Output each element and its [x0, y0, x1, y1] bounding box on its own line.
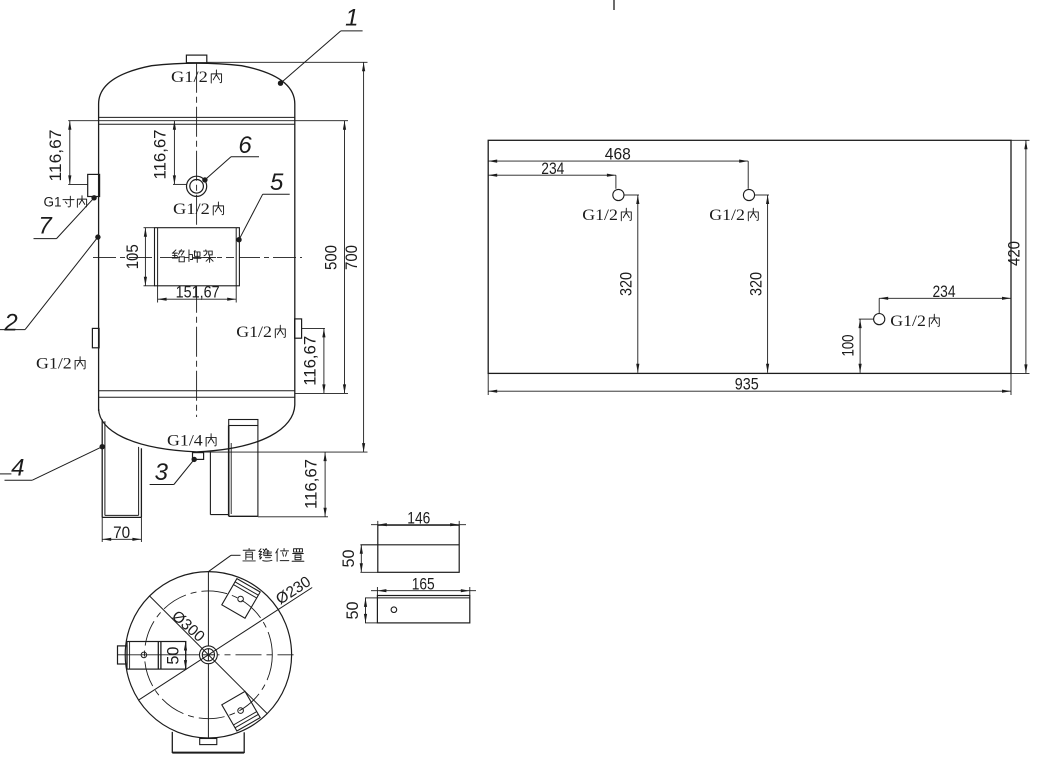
top view horizontal centerline [194, 654, 294, 656]
upper right leg top view [222, 579, 260, 619]
svg-text:100: 100 [839, 335, 857, 357]
dim 700 [362, 62, 365, 452]
svg-text:G1/4: G1/4 [167, 432, 203, 449]
vessel top head [99, 63, 295, 104]
dim 116.67 upper right [302, 328, 326, 393]
svg-text:116,67: 116,67 [302, 336, 320, 386]
plate 165 hole [391, 607, 397, 613]
svg-text:G1/2: G1/2 [36, 355, 72, 372]
dim 320 B [755, 195, 770, 373]
dev label C [890, 313, 939, 330]
label G1/2 right [236, 324, 285, 341]
dim 234 right [879, 297, 1011, 314]
dim 70 [102, 517, 141, 542]
extension line bottom apex [196, 451, 368, 453]
callout 5 leader [236, 194, 289, 242]
svg-text:116,67: 116,67 [47, 130, 65, 182]
extension line top apex [207, 61, 368, 63]
dim 165 text [412, 575, 435, 593]
callout 5 text [270, 169, 284, 196]
dim 234 left text [541, 160, 564, 178]
svg-text:50: 50 [164, 647, 182, 665]
svg-text:320: 320 [747, 272, 765, 296]
dim 935 [488, 373, 1011, 395]
D300 text [168, 608, 208, 646]
vessel shell left wall [98, 104, 100, 411]
callout 2 leader [0, 234, 101, 329]
top view bolt circle [145, 591, 273, 719]
dim 165 [371, 587, 476, 596]
left leg bolt hole [141, 652, 147, 658]
vessel vertical centerline [196, 63, 198, 417]
right leg [229, 420, 258, 517]
svg-text:G1/2: G1/2 [890, 313, 926, 330]
callout 1 text [345, 5, 358, 32]
svg-text:151,67: 151,67 [176, 283, 220, 301]
dim 146 text [407, 509, 430, 527]
top view outer circle [125, 572, 291, 738]
dev label A [582, 207, 631, 224]
seam label leader [209, 555, 241, 571]
top partial line [613, 0, 615, 10]
dim 116.67 lower right text [302, 459, 320, 509]
dim 100 text [839, 335, 857, 357]
svg-text:G1/2: G1/2 [173, 201, 210, 218]
svg-text:234: 234 [933, 283, 956, 301]
svg-text:700: 700 [343, 245, 361, 270]
dim 116.67 middle text [151, 130, 169, 180]
dim 50 plate2 [364, 598, 367, 623]
D230 text [273, 573, 314, 608]
nameplate text [172, 250, 215, 263]
svg-text:935: 935 [735, 376, 759, 394]
dim 500 [343, 121, 346, 394]
label G1cun [43, 195, 86, 210]
lower right leg top view [222, 691, 260, 731]
callout 3 leader [150, 457, 197, 485]
dim 50 plate2 text [344, 602, 362, 620]
label G1/2 left [36, 355, 85, 372]
svg-text:G1/2: G1/2 [236, 324, 272, 341]
base plate notch [200, 739, 217, 745]
svg-text:146: 146 [407, 509, 430, 527]
top nozzle [186, 55, 206, 63]
svg-text:105: 105 [124, 244, 142, 269]
extension line top weld [68, 120, 348, 122]
nozzle 7 rect [88, 174, 100, 196]
label G1/2 middle [173, 201, 224, 218]
dim 50 plate1 text [340, 550, 358, 568]
left G1/2 nozzle [92, 328, 99, 347]
label G1/2 top [171, 69, 222, 86]
svg-text:G1/2: G1/2 [709, 207, 745, 224]
dev nozzle B circle [743, 189, 754, 200]
dim 320 A [624, 195, 639, 373]
dim 50 plate1 [360, 545, 363, 573]
D300 diameter line [150, 596, 268, 714]
dim 151.67 [158, 286, 237, 303]
svg-text:116,67: 116,67 [151, 130, 169, 180]
svg-text:320: 320 [618, 272, 636, 296]
seam label text [243, 548, 304, 561]
vessel shell right wall [294, 104, 296, 405]
svg-text:Ø300: Ø300 [168, 608, 208, 646]
svg-text:G1: G1 [43, 195, 61, 210]
label G1/4 [167, 432, 216, 449]
nameplate rect [155, 228, 240, 286]
dim 116.67 lower right [258, 452, 328, 517]
svg-text:116,67: 116,67 [302, 459, 320, 509]
base plate [172, 732, 244, 753]
dim 420 [1011, 140, 1030, 373]
svg-text:2: 2 [3, 310, 17, 337]
dim 500 text [323, 245, 341, 270]
top weld seam line [99, 123, 295, 125]
dim 468 [488, 160, 748, 189]
svg-text:50: 50 [344, 602, 362, 620]
dim 105 text [124, 244, 142, 269]
dim 700 text [343, 245, 361, 270]
plate 146 rect [360, 525, 459, 572]
svg-text:234: 234 [541, 160, 564, 178]
svg-text:G1/2: G1/2 [582, 207, 618, 224]
vessel bottom head [99, 405, 295, 452]
svg-text:6: 6 [238, 132, 252, 159]
dim 151.67 text [176, 283, 220, 301]
left leg centerline [117, 654, 194, 656]
dev label B [709, 207, 758, 224]
dim 70 text [113, 524, 130, 542]
svg-text:420: 420 [1006, 241, 1024, 266]
back leg edge [210, 452, 228, 515]
svg-text:3: 3 [155, 459, 169, 486]
dim 116.67 left [68, 121, 88, 185]
dim 935 text [735, 376, 759, 394]
bottom head tangent line [99, 396, 295, 398]
dim 116.67 left text [47, 130, 65, 182]
svg-text:7: 7 [38, 212, 53, 239]
vessel horizontal centerline [93, 256, 302, 258]
dim 100 [859, 319, 874, 373]
svg-text:1: 1 [345, 5, 358, 32]
svg-text:Ø230: Ø230 [273, 573, 314, 608]
left leg [102, 420, 141, 518]
dim 234 right text [933, 283, 956, 301]
callout 2 text [3, 310, 17, 337]
dim 116.67 middle [173, 121, 187, 185]
dev nozzle A circle [613, 189, 624, 200]
callout 7 text [38, 212, 53, 239]
dim 420 text [1006, 241, 1024, 266]
center symbol [200, 646, 218, 664]
svg-text:4: 4 [11, 455, 24, 482]
callout 4 leader [5, 444, 105, 480]
callout 6 text [238, 132, 252, 159]
dim 50 top view [184, 642, 187, 670]
extension line bottom weld [295, 392, 348, 394]
dim 320 A text [618, 272, 636, 296]
dev nozzle C circle [874, 314, 885, 325]
nameplate centerline [160, 256, 234, 258]
top view vertical seam line [207, 572, 209, 738]
bottom nozzle [193, 453, 204, 460]
dim 468 text [605, 146, 631, 164]
svg-text:50: 50 [340, 550, 358, 568]
top head tangent line [99, 116, 295, 118]
svg-text:165: 165 [412, 575, 435, 593]
svg-text:468: 468 [605, 146, 631, 164]
nozzle 6 circle [187, 176, 207, 196]
callout 3 text [155, 459, 169, 486]
dim 116.67 upper right text [302, 336, 320, 386]
dim 320 B text [747, 272, 765, 296]
svg-text:500: 500 [323, 245, 341, 270]
callout 1 leader [278, 31, 363, 86]
plate 165 rect [365, 596, 470, 623]
right G1/2 nozzle [295, 319, 302, 338]
bottom weld seam line [99, 390, 295, 392]
dim 50 top view text [164, 647, 182, 665]
development rect [488, 140, 1011, 373]
dim 146 [371, 521, 466, 526]
left nozzle tab top view [118, 646, 128, 664]
callout 4 text [0, 455, 24, 482]
callout 6 leader [202, 157, 259, 183]
D230 leader line [139, 588, 313, 701]
svg-text:70: 70 [113, 524, 130, 542]
dim 105 [144, 228, 155, 286]
svg-text:5: 5 [270, 169, 284, 196]
callout 7 leader [34, 195, 97, 239]
svg-text:G1/2: G1/2 [171, 69, 208, 86]
dim 234 left [488, 174, 616, 189]
left leg top view [127, 642, 186, 670]
